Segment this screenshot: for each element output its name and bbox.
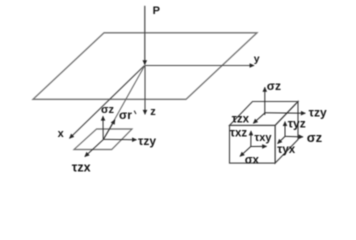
svg-text:σz: σz <box>267 79 281 93</box>
prime tick after sigma-r <box>134 111 136 114</box>
tau-yx arrow (right face) <box>278 136 285 143</box>
z axis <box>144 66 146 115</box>
tau-yz arrow (right face) <box>284 122 286 137</box>
x axis <box>70 66 145 139</box>
tau-zy arrow on element <box>104 138 137 140</box>
tau-zx arrow on element <box>85 139 104 156</box>
svg-text:τyz: τyz <box>288 116 306 130</box>
cube top face <box>230 102 299 126</box>
svg-text:τzy: τzy <box>309 106 327 120</box>
svg-text:τzx: τzx <box>72 161 91 175</box>
svg-text:σz: σz <box>307 130 323 145</box>
ground surface plane (parallelogram) <box>33 33 257 100</box>
svg-text:z: z <box>150 106 156 118</box>
sigma-z arrow on element <box>102 116 104 139</box>
svg-text:σx: σx <box>245 154 260 166</box>
tau-zx arrow (cube top) <box>253 113 264 123</box>
radial line from origin to element center <box>104 66 145 140</box>
svg-text:y: y <box>254 53 260 65</box>
svg-text:τxz: τxz <box>230 127 248 139</box>
cube right face <box>275 102 298 164</box>
cube front face <box>230 125 276 163</box>
soil element (small parallelogram) <box>74 129 132 150</box>
sigma-z arrow (right, cube) <box>285 135 303 138</box>
sigma-r arrow on element (along radial line) <box>104 120 115 140</box>
y axis <box>145 65 254 67</box>
svg-text:τzy: τzy <box>138 134 156 148</box>
svg-text:τyx: τyx <box>277 144 296 156</box>
tau-xz arrow (front face) <box>250 131 252 147</box>
svg-text:σr: σr <box>119 108 132 122</box>
sigma-z arrow (cube top) <box>264 87 266 115</box>
svg-text:x: x <box>58 128 65 140</box>
load P arrow <box>144 6 146 65</box>
svg-text:σz: σz <box>101 104 115 116</box>
svg-text:τzx: τzx <box>232 114 250 126</box>
svg-text:τxy: τxy <box>254 132 272 144</box>
svg-text:P: P <box>153 5 160 17</box>
sigma-x arrow (front face) <box>240 147 251 157</box>
tau-xy arrow (front face) <box>251 145 267 147</box>
tau-zy arrow (cube top) <box>265 112 306 115</box>
